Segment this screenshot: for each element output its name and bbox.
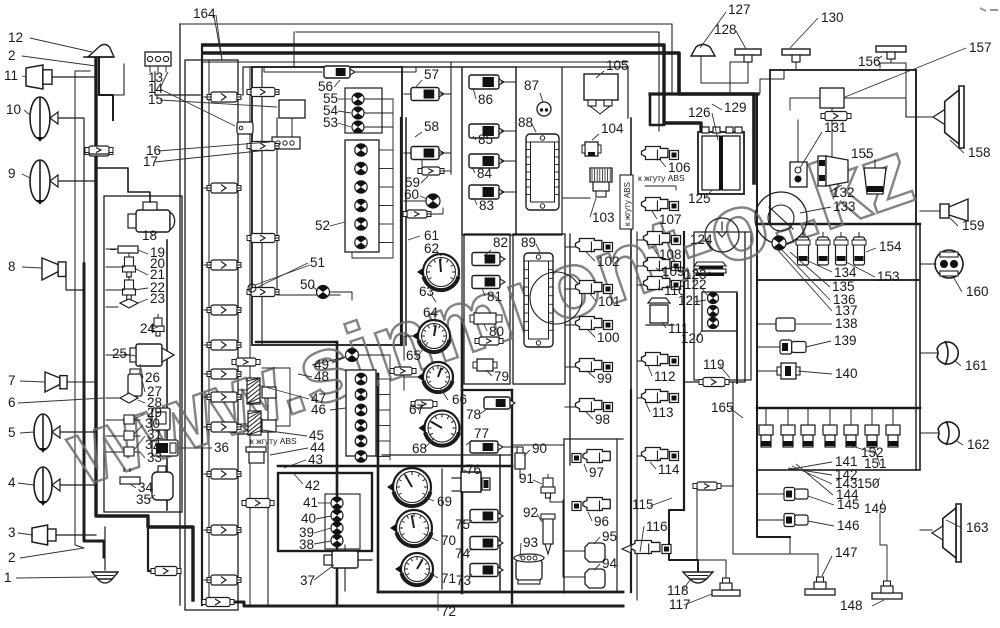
svg-text:83: 83	[479, 198, 494, 213]
svg-text:82: 82	[493, 235, 508, 250]
lamp 41	[331, 497, 343, 509]
sensor 22	[123, 276, 136, 300]
svg-text:52: 52	[315, 218, 330, 233]
svg-text:26: 26	[145, 370, 160, 385]
fuse 86	[469, 75, 504, 89]
wire corridor line y62	[203, 61, 628, 63]
box around lamps 38-41	[325, 494, 360, 549]
svg-text:69: 69	[437, 494, 452, 509]
cylinder 134	[796, 232, 810, 265]
wire right box edge x920	[915, 70, 917, 470]
svg-text:158: 158	[968, 145, 991, 160]
box left panel (items 18-35)	[104, 196, 182, 512]
svg-text:96: 96	[594, 514, 609, 529]
relay 108	[644, 232, 681, 246]
clamp 161	[920, 341, 958, 365]
wire 57 left	[404, 93, 411, 95]
horn 8	[42, 258, 66, 280]
svg-text:2: 2	[8, 550, 16, 565]
wire chamber10 to bus	[58, 118, 84, 264]
box 42 (thick)	[278, 473, 372, 551]
fuse F2 in fuse column A	[204, 183, 241, 193]
svg-text:58: 58	[424, 119, 439, 134]
gauge 71	[395, 553, 433, 585]
fuse under 60	[403, 208, 443, 218]
wire corridor collector x451	[450, 62, 452, 174]
box fuse column	[185, 60, 238, 610]
lamp 87	[537, 102, 551, 116]
lamp 12 (side repeater)	[84, 44, 114, 120]
svg-text:3: 3	[8, 525, 16, 540]
tag к жгуту ABS vertical	[620, 175, 633, 229]
box right panel outer	[770, 70, 916, 224]
svg-text:134: 134	[834, 265, 857, 280]
connector 131	[790, 162, 807, 187]
motor 18	[128, 202, 175, 232]
connector 16	[272, 137, 300, 149]
wire 37 right	[345, 560, 372, 591]
nozzle 94	[563, 569, 605, 588]
svg-text:62: 62	[424, 241, 439, 256]
wire y486 with fuse	[693, 482, 733, 560]
fuse F7 in fuse column A	[204, 392, 241, 402]
brake chamber 4	[34, 467, 60, 506]
wire chamber9 to bus	[58, 180, 96, 182]
fuse 57	[411, 88, 451, 101]
ignition 133	[755, 192, 807, 244]
fuse F16 low-left	[151, 567, 181, 576]
box right panel fuse row	[757, 224, 920, 280]
svg-text:155: 155	[851, 146, 874, 161]
valve 111	[646, 298, 674, 325]
svg-text:125: 125	[688, 191, 711, 206]
gauge 65	[412, 320, 450, 352]
fuse F17 bottom	[202, 598, 234, 607]
relay 102	[576, 239, 613, 253]
wire bus bottom trunk (thick)	[232, 602, 623, 606]
svg-text:146: 146	[837, 518, 860, 533]
svg-text:93: 93	[523, 535, 538, 550]
brake chamber 9	[30, 160, 58, 205]
wire mid vertical x632 lower (thick)	[630, 390, 632, 592]
clamp 162	[920, 421, 959, 445]
svg-text:36: 36	[214, 440, 229, 455]
wire vertical x268 bottom	[267, 390, 269, 607]
svg-text:72: 72	[441, 604, 456, 619]
svg-text:25: 25	[112, 346, 127, 361]
svg-text:130: 130	[821, 10, 844, 25]
svg-text:148: 148	[840, 598, 863, 613]
corner marks	[980, 8, 998, 11]
wire ladder 52	[352, 150, 393, 258]
svg-text:11: 11	[4, 68, 18, 83]
svg-text:94: 94	[602, 556, 618, 571]
svg-text:104: 104	[601, 121, 624, 136]
wire top harness line 3 (thick)	[203, 45, 701, 134]
connector 160	[920, 250, 963, 278]
svg-text:101: 101	[598, 294, 621, 309]
svg-text:97: 97	[589, 465, 604, 480]
svg-text:131: 131	[824, 120, 847, 135]
svg-text:118: 118	[667, 583, 689, 598]
svg-text:109: 109	[662, 264, 685, 279]
crossed lamp 134a	[772, 236, 786, 250]
svg-text:160: 160	[966, 284, 989, 299]
fuse 73	[470, 564, 503, 577]
wire 165 vertical	[732, 382, 734, 486]
sensor 24	[152, 314, 164, 336]
wire central vertical x337 (thick)	[336, 342, 339, 605]
fuse F20 in fuse column B	[247, 88, 279, 97]
relay 98	[576, 399, 613, 413]
lamp 53	[352, 121, 364, 133]
svg-text:к жгуту ABS: к жгуту ABS	[623, 182, 632, 226]
wire 117 118	[725, 560, 727, 578]
svg-text:128: 128	[714, 22, 737, 37]
wire top harness feed right (thick)	[650, 92, 758, 95]
svg-text:71: 71	[441, 571, 456, 586]
fuse 74	[470, 537, 503, 550]
gauge 68 (speedometer)	[419, 411, 460, 446]
wire 157box	[790, 98, 906, 110]
sensor 80	[470, 313, 502, 324]
svg-text:15: 15	[148, 92, 163, 107]
gauge 70	[390, 510, 432, 546]
fuse colB extra1	[236, 358, 256, 366]
ground 147	[805, 577, 835, 595]
canister 35	[152, 466, 173, 500]
svg-text:63: 63	[419, 284, 434, 299]
svg-text:48: 48	[314, 369, 329, 384]
svg-text:42: 42	[305, 478, 320, 493]
wire right edge vertical	[698, 559, 726, 561]
box lamps 53-55	[345, 88, 393, 150]
fuse 85	[469, 124, 504, 138]
connector housing outline	[262, 368, 290, 426]
box right sensors (thick top)	[757, 407, 920, 410]
box 89 connector panel	[513, 234, 565, 384]
svg-text:138: 138	[835, 316, 858, 331]
plug 79	[473, 359, 497, 371]
relay 112	[642, 353, 679, 367]
wire feed battery left (thick)	[650, 94, 664, 125]
fuse near 17	[85, 148, 113, 156]
svg-text:106: 106	[668, 160, 691, 175]
wire mid vertical x632	[630, 118, 632, 390]
fuse left of 65	[390, 367, 416, 375]
svg-text:107: 107	[659, 212, 682, 227]
cylinder 153	[834, 232, 848, 265]
ground 148	[872, 581, 902, 599]
svg-text:74: 74	[455, 546, 471, 561]
device 33-36	[152, 440, 178, 456]
svg-text:57: 57	[424, 67, 439, 82]
roof lamp 128	[730, 49, 761, 93]
wire top harness line 1	[180, 24, 672, 95]
relay 96	[572, 498, 610, 512]
svg-text:116: 116	[646, 519, 668, 534]
fuse F10 in fuse column A	[204, 525, 241, 535]
wire vertical x512 (thick)	[511, 390, 513, 603]
wire relay rail x570	[569, 234, 571, 465]
switch 31	[120, 447, 140, 456]
fuse 83	[469, 185, 504, 199]
motor resistor 103	[590, 168, 612, 197]
svg-text:165: 165	[711, 400, 734, 415]
fuse colB extra2	[236, 426, 256, 434]
relay 99	[576, 359, 613, 373]
svg-text:2: 2	[8, 48, 16, 63]
svg-text:100: 100	[597, 330, 620, 345]
relay 109	[644, 258, 681, 272]
washer pump 92	[541, 514, 555, 554]
wire 14 leader	[160, 72, 168, 88]
gauge 69	[387, 468, 431, 506]
wire 58 left	[404, 152, 411, 154]
svg-text:10: 10	[6, 102, 21, 117]
wire 145 146	[757, 494, 784, 520]
svg-text:108: 108	[659, 247, 682, 262]
switch 30	[120, 431, 140, 440]
svg-text:64: 64	[423, 305, 439, 320]
wire secondary left bus (thick)	[84, 264, 104, 557]
lamp 39	[331, 522, 343, 534]
wire central inner vertical	[277, 118, 340, 295]
wire bottom trunk mid (thick)	[278, 465, 512, 468]
fuse 58	[411, 147, 451, 160]
wire 148 149	[880, 513, 887, 581]
box 90-93	[512, 444, 564, 446]
svg-text:40: 40	[301, 511, 316, 526]
wire gauge feeds	[404, 336, 420, 390]
svg-text:88: 88	[518, 115, 533, 130]
wire top harness line 2	[296, 32, 659, 131]
fuse F18 right of column	[85, 146, 113, 154]
wire panel right edge thick pair	[400, 118, 402, 345]
relay 15	[279, 100, 305, 118]
svg-text:95: 95	[602, 529, 617, 544]
bell lamp 3	[32, 525, 56, 545]
fuse 59	[418, 160, 451, 175]
wire right vertical x684 (thick)	[683, 232, 685, 510]
svg-text:70: 70	[441, 533, 456, 548]
ground 117	[712, 578, 740, 596]
svg-text:105: 105	[606, 58, 629, 73]
svg-text:79: 79	[494, 369, 509, 384]
svg-text:66: 66	[452, 392, 467, 407]
wire gauge box left edge (thick)	[377, 374, 380, 592]
relay 97	[572, 450, 610, 464]
lamp 49	[333, 349, 390, 371]
svg-text:145: 145	[837, 497, 860, 512]
fuse F11 in fuse column A	[204, 575, 241, 585]
svg-text:126: 126	[688, 105, 711, 120]
connector 14	[237, 122, 253, 134]
svg-text:7: 7	[8, 373, 16, 388]
device 155	[864, 160, 886, 194]
lamp 54	[352, 107, 364, 119]
plug 91	[541, 474, 555, 498]
svg-text:43: 43	[308, 452, 323, 467]
sensor 21	[123, 253, 136, 277]
ground 1	[92, 572, 118, 583]
fuse 84	[469, 154, 504, 168]
relay 110	[644, 277, 681, 291]
svg-text:154: 154	[879, 239, 902, 254]
wire 12 branch	[96, 64, 124, 95]
brake chamber 5	[34, 414, 60, 453]
svg-text:98: 98	[595, 412, 610, 427]
svg-text:33: 33	[147, 450, 162, 465]
wire lamp11 to bus	[52, 76, 96, 78]
wire 18 top	[96, 168, 150, 202]
wire corridor top y67	[402, 66, 628, 68]
svg-text:115: 115	[632, 497, 654, 512]
wire horn7	[67, 381, 96, 383]
wire vertical x462 (thick)	[461, 320, 464, 593]
wire relays mid to rail	[637, 240, 645, 456]
svg-text:139: 139	[834, 333, 857, 348]
wire bell3	[56, 534, 96, 536]
svg-text:91: 91	[519, 471, 534, 486]
svg-text:41: 41	[303, 495, 318, 510]
fuse F9 in fuse column A	[204, 469, 241, 479]
wire fuse119 row	[684, 381, 745, 383]
wire 50 to box	[330, 292, 352, 300]
fuse F22 in fuse column B	[247, 234, 279, 243]
svg-text:132: 132	[832, 185, 855, 200]
svg-text:113: 113	[652, 405, 674, 420]
lamp 50	[317, 285, 330, 298]
relay 76	[452, 472, 490, 492]
gauge 66	[417, 362, 453, 392]
fuse F5 in fuse column A	[204, 340, 241, 350]
fuse arrow 157b	[821, 112, 851, 121]
battery 125-126	[698, 127, 744, 194]
wire bus branch to fuse16	[148, 527, 157, 571]
svg-text:129: 129	[724, 100, 747, 115]
plug 140	[777, 363, 800, 379]
box mid-right 120-124	[694, 232, 751, 380]
svg-text:8: 8	[8, 259, 16, 274]
svg-text:77: 77	[474, 426, 489, 441]
svg-text:153: 153	[877, 269, 900, 284]
fuse F21 in fuse column B	[247, 142, 279, 151]
wire mid vertical x637	[636, 232, 638, 600]
svg-text:67: 67	[409, 402, 424, 417]
cylinder 135	[816, 232, 830, 265]
wire 115 staircase	[669, 510, 698, 571]
svg-text:84: 84	[477, 166, 493, 181]
cylinder 154	[852, 232, 866, 265]
brake chamber 10	[30, 97, 58, 142]
lamp 55	[352, 93, 364, 105]
wire 94-97 box right edge	[616, 439, 618, 592]
svg-text:157: 157	[969, 40, 992, 55]
valve 28	[120, 393, 138, 403]
wire chamber5	[60, 431, 96, 433]
wire 164 leader	[214, 16, 222, 60]
box gauges 69-71 panel	[382, 454, 512, 456]
wire top harness line 4 (thick)	[203, 53, 754, 183]
box gauges corridor	[402, 67, 462, 320]
wire 157box down	[831, 108, 833, 160]
svg-text:46: 46	[311, 402, 326, 417]
speaker 163	[920, 504, 961, 562]
fuse 75	[470, 510, 503, 523]
svg-text:147: 147	[835, 545, 858, 560]
lamp block 46 (6 lamps)	[346, 370, 390, 462]
wire gauge panel right edge	[499, 455, 501, 592]
wire relays to rail	[565, 247, 575, 407]
relay 101	[576, 281, 613, 295]
svg-text:23: 23	[150, 291, 165, 306]
ground 118	[683, 572, 713, 583]
plug 145	[784, 488, 808, 501]
wire left panel inner vertical	[166, 240, 168, 510]
horn 159	[920, 199, 968, 221]
wire 103 down	[562, 197, 590, 199]
svg-text:150: 150	[857, 476, 880, 491]
svg-text:112: 112	[654, 369, 676, 384]
tag к жгуту ABS horizontal	[638, 173, 685, 190]
plug 146	[784, 514, 808, 527]
svg-text:81: 81	[487, 289, 502, 304]
fuse 82	[472, 253, 505, 266]
connector 44	[246, 447, 266, 463]
wire stub x294	[293, 32, 295, 67]
svg-text:9: 9	[8, 166, 16, 181]
cylinder 26-27	[128, 369, 142, 396]
wiper motor 37	[324, 545, 358, 568]
fuse F6 in fuse column A	[204, 369, 241, 379]
gauge 62 (voltmeter)	[417, 254, 459, 290]
wire horizontal y390 (thick)	[462, 389, 512, 391]
device 25	[130, 344, 174, 366]
wire panel internals	[106, 249, 130, 452]
svg-text:60: 60	[404, 187, 419, 202]
wire 94 95 left	[550, 497, 563, 577]
hatched connector 47	[238, 378, 276, 404]
fuse 77	[470, 441, 520, 453]
svg-text:18: 18	[142, 228, 157, 243]
wire 138-140 left	[757, 324, 780, 371]
horn stack 123	[694, 262, 726, 276]
wire 147	[733, 537, 818, 577]
plug 104	[582, 142, 601, 156]
svg-text:90: 90	[532, 441, 547, 456]
svg-text:103: 103	[592, 210, 615, 225]
lamp block 52 (6 lamps)	[345, 140, 379, 252]
relay 107	[642, 198, 679, 212]
fuse 119	[699, 378, 729, 387]
relay 113	[642, 390, 679, 404]
relay 105	[584, 74, 618, 114]
wire 158	[906, 100, 933, 117]
roof lamp 130	[760, 49, 810, 93]
wire horn8	[66, 270, 84, 290]
box mid bottom 94-97	[564, 438, 623, 440]
wire main left bus (thick)	[96, 57, 193, 600]
wire bottom gauge-box bottom (thick)	[378, 591, 623, 594]
svg-text:149: 149	[864, 501, 887, 516]
svg-text:50: 50	[300, 277, 315, 292]
wire right panel left edge (thick)	[757, 96, 790, 537]
svg-text:76: 76	[466, 462, 481, 477]
svg-text:119: 119	[703, 357, 725, 372]
wire fuses right	[501, 82, 516, 192]
lamp 132	[818, 156, 848, 186]
